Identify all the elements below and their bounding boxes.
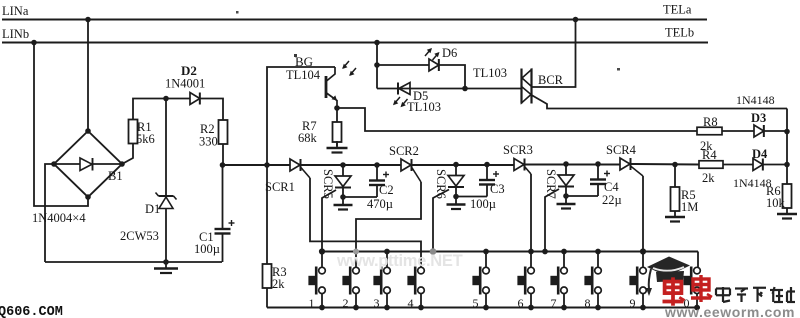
svg-text:5k6: 5k6 (136, 132, 155, 146)
logo cap tassel (649, 269, 651, 289)
pushbutton switch 6 (530, 252, 532, 268)
wire R4 to D4 (723, 164, 753, 166)
svg-text:R4: R4 (702, 148, 717, 162)
wire emitter to R8 line (337, 108, 697, 131)
pushbutton switch 8 (597, 252, 599, 268)
wire bus to button0 (697, 252, 699, 268)
ground R6 (786, 208, 788, 214)
wire R2 bottom to rail (222, 144, 224, 165)
svg-text:Q606.COM: Q606.COM (0, 305, 63, 318)
svg-text:100µ: 100µ (470, 197, 496, 211)
svg-text:SCR1: SCR1 (265, 180, 295, 194)
pushbutton switch 3 (386, 252, 388, 268)
wire rail SCR4 to R4 (631, 163, 699, 166)
wire LINb line (2, 42, 708, 44)
resistor R8 (697, 127, 722, 135)
ground SCR7 (565, 196, 567, 204)
wire node to triac BCR (465, 88, 522, 90)
wire SCR6 gate (433, 190, 449, 252)
node D1 ground junction (163, 259, 169, 265)
pushbutton switch 0 (696, 266, 698, 268)
wire rail SCR2 to SCR3 (412, 164, 514, 166)
node bus button2 crossing (353, 249, 359, 255)
resistor R4 (699, 161, 723, 169)
node bus button9 (640, 248, 646, 254)
wire right bus vertical (786, 109, 788, 185)
logo text dianzi xiazaizhan (716, 287, 730, 302)
svg-text:9: 9 (630, 296, 636, 310)
svg-text:22µ: 22µ (602, 193, 622, 207)
wire SCR5 gate (322, 190, 336, 252)
zener diode D1 2CW53 (159, 195, 174, 197)
scan speck 3 (236, 11, 239, 14)
logo red bug character 1 (663, 277, 685, 305)
wire SCR3 gate to button6 (530, 174, 532, 252)
resistor R5 (674, 165, 676, 188)
node bus button3 (384, 249, 390, 255)
node LINa junction to bridge (85, 17, 91, 23)
svg-text:7: 7 (551, 296, 557, 310)
svg-text:1N4001: 1N4001 (165, 77, 205, 91)
wire R7 to ground (336, 142, 338, 146)
resistor R1 (129, 120, 138, 144)
svg-text:LINa: LINa (2, 4, 29, 18)
diode D4 (753, 159, 763, 171)
pushbutton switch 7 (563, 252, 565, 268)
light arrows out of D5 (394, 97, 400, 104)
thyristor SCR5 (340, 162, 346, 168)
diode D2 (190, 93, 200, 105)
bridge rectifier B1 (54, 131, 122, 197)
scan speck 2 (617, 68, 620, 71)
wire bottom rail (267, 307, 700, 309)
svg-text:C2: C2 (379, 183, 394, 197)
node R5 junction (672, 162, 678, 168)
svg-text:C4: C4 (604, 180, 619, 194)
ground main (165, 262, 167, 269)
svg-text:LINb: LINb (2, 27, 29, 41)
wire R3 to bottom rail (266, 288, 268, 308)
wire R1 top (133, 99, 165, 120)
ground R5 (674, 211, 676, 217)
svg-text:10k: 10k (766, 196, 786, 210)
svg-text:68k: 68k (298, 131, 318, 145)
node SCR7 cathode (563, 193, 569, 199)
wire bridge minus to ground rail (45, 164, 54, 262)
node bus SCR6 gate (430, 248, 437, 255)
pushbutton switch 4 (420, 266, 422, 268)
svg-text:www.eeworm.com: www.eeworm.com (664, 304, 795, 318)
scan speck 1 (294, 54, 297, 57)
thyristor SCR4 (620, 158, 630, 170)
svg-text:1M: 1M (681, 200, 698, 214)
node bus button8 (595, 249, 601, 255)
svg-text:3: 3 (374, 296, 380, 310)
svg-text:6: 6 (518, 296, 524, 310)
zener diode D1 branch wire (165, 99, 167, 197)
svg-text:SCR4: SCR4 (606, 143, 637, 157)
capacitor C1 (222, 165, 224, 229)
svg-text:D1: D1 (145, 202, 160, 216)
svg-text:100µ: 100µ (194, 242, 220, 256)
wire C3 bottom to SCR6 (456, 196, 487, 198)
svg-text:TELb: TELb (665, 26, 694, 40)
diode D3 (754, 125, 764, 137)
wire LINb to opto LEDs (376, 43, 378, 89)
wire D6 branch (377, 64, 429, 66)
wire LINb down-left branch (34, 43, 88, 207)
svg-text:4: 4 (408, 296, 414, 310)
resistor R3 (266, 165, 268, 264)
svg-text:1: 1 (309, 296, 315, 310)
wire SCR2 gate to button2 (356, 182, 421, 267)
node SCR6 cathode (453, 194, 459, 200)
wire D2 to R2 (200, 99, 223, 121)
LED D5 TL103 reversed (377, 88, 465, 90)
pushbutton switch 1 (321, 252, 323, 268)
wire D4 to right bus (764, 164, 788, 166)
node bus button1 (319, 248, 325, 254)
node bus button5 (483, 249, 489, 255)
svg-text:C3: C3 (490, 182, 505, 196)
node D2 anode junction (163, 96, 169, 102)
pushbutton switch 9 (642, 252, 644, 268)
wire D3 to right bus (765, 130, 788, 132)
svg-text:SCR7: SCR7 (544, 169, 558, 199)
logo graduation cap (647, 257, 690, 277)
svg-text:R8: R8 (703, 115, 718, 129)
node bus SCR7 gate (542, 249, 548, 255)
ground SCR5 (342, 197, 344, 205)
resistor R7 (336, 108, 338, 122)
wire BCR to LINa (532, 20, 576, 88)
wire R8 to D3 (722, 130, 754, 132)
wire SCR4 gate to bus (642, 176, 644, 252)
svg-text:1N4004×4: 1N4004×4 (32, 211, 86, 225)
wire LINa to bridge top (87, 20, 89, 132)
wire positive rail (222, 164, 290, 166)
wire rail SCR1 to SCR2 (301, 164, 401, 166)
ground SCR6 (455, 197, 457, 205)
svg-text:D3: D3 (751, 111, 766, 125)
node D6 branch junction (374, 62, 380, 68)
capacitor C4 (595, 161, 601, 167)
node C1 top junction (220, 162, 226, 168)
node R3 BG junction on rail (264, 162, 270, 168)
wire gate bus (322, 251, 698, 253)
wire SCR1 gate to button4 (310, 178, 421, 267)
thyristor SCR2 (401, 159, 411, 171)
svg-text:www.pttime.NET: www.pttime.NET (336, 252, 463, 270)
light arrows out of D6 (425, 49, 431, 56)
svg-text:SCR5: SCR5 (321, 169, 335, 199)
svg-text:BCR: BCR (538, 73, 564, 87)
node D4 right junction (784, 162, 790, 168)
svg-text:BG: BG (295, 54, 313, 69)
LED D6 TL103 (429, 59, 439, 71)
thyristor SCR1 (290, 159, 300, 171)
svg-text:TELa: TELa (663, 3, 692, 17)
svg-text:2: 2 (343, 296, 349, 310)
wire C2 bottom to SCR5 (343, 196, 377, 198)
wire C4 bottom to SCR7 (566, 195, 598, 197)
node D5 D6 branch on LINb (374, 40, 380, 46)
wire BG collector branch (267, 67, 335, 165)
node LED to BCR junction (462, 86, 468, 92)
svg-text:SCR3: SCR3 (503, 143, 533, 157)
svg-text:SCR6: SCR6 (434, 169, 448, 199)
pushbutton switch 2 (355, 266, 357, 268)
svg-text:2k: 2k (272, 277, 285, 291)
resistor R2 (219, 120, 228, 144)
node D3 right junction (784, 129, 790, 135)
svg-text:SCR2: SCR2 (389, 144, 419, 158)
svg-text:1N4148: 1N4148 (736, 93, 775, 107)
svg-text:2k: 2k (702, 171, 715, 185)
node bus button7 (561, 249, 567, 255)
node LINb junction left (31, 40, 37, 46)
svg-text:TL104: TL104 (286, 68, 321, 82)
svg-text:TL103: TL103 (473, 66, 507, 80)
svg-text:B1: B1 (108, 169, 123, 183)
wire ground rail bottom left (45, 261, 222, 263)
svg-text:470µ: 470µ (367, 197, 393, 211)
thyristor SCR7 (563, 161, 569, 167)
wire D6 to node (440, 65, 466, 89)
capacitor C3 (484, 162, 490, 168)
node BCR LINa junction (573, 17, 579, 23)
svg-text:8: 8 (585, 296, 591, 310)
thyristor SCR3 (514, 159, 524, 171)
wire junction to D2 (166, 98, 190, 100)
wire bridge plus to R1 (122, 143, 133, 164)
wire BCR gate (532, 95, 788, 109)
pushbutton switch 5 (485, 252, 487, 268)
node BG emitter junction (334, 105, 340, 111)
svg-text:5: 5 (473, 296, 479, 310)
logo red bug character 2 (691, 275, 712, 302)
phototransistor BG TL104 (325, 76, 328, 98)
light arrows into BG (343, 61, 349, 68)
wire LINa line (2, 19, 707, 21)
svg-text:D6: D6 (442, 46, 457, 60)
ground R7 (336, 141, 338, 148)
svg-text:330: 330 (199, 135, 218, 149)
wire rail SCR3 to SCR4 (525, 164, 620, 166)
wire SCR7 gate (545, 189, 559, 252)
svg-text:2CW53: 2CW53 (120, 229, 159, 243)
triac BCR (520, 69, 522, 104)
svg-text:TL103: TL103 (407, 100, 441, 114)
thyristor SCR6 (453, 162, 459, 168)
svg-text:D4: D4 (752, 147, 768, 161)
resistor R6 (783, 184, 792, 208)
node SCR5 cathode (340, 194, 346, 200)
node bus button6 (528, 249, 534, 255)
capacitor C2 (374, 162, 380, 168)
